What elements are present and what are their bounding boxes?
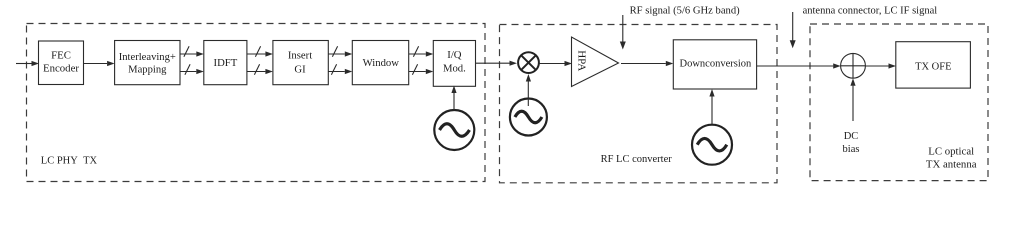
block Interleaving+Mapping [115, 41, 180, 85]
label LC PHY TX [41, 156, 98, 167]
dashed enclosure LC optical TX antenna [810, 24, 988, 181]
svg-text:bias: bias [843, 144, 860, 155]
mixer X [518, 52, 539, 73]
svg-text:LC optical: LC optical [928, 146, 974, 158]
block Insert GI [273, 41, 328, 85]
bus Window to IQ Mod lower [409, 64, 434, 74]
svg-text:Interleaving+: Interleaving+ [119, 52, 176, 63]
wire oscillator to I/Q Mod [451, 86, 456, 111]
label LC optical TX antenna [926, 146, 977, 171]
label RF LC converter [601, 154, 673, 165]
wire oscillator to mixer [526, 74, 531, 106]
adder (bias tee) [841, 53, 866, 78]
svg-text:I/Q: I/Q [447, 49, 462, 61]
svg-text:DC: DC [844, 131, 859, 142]
block TX OFE [896, 42, 971, 88]
arrow RF signal into wire [620, 15, 626, 50]
bus Window to IQ Mod upper [409, 46, 434, 56]
svg-text:RF LC converter: RF LC converter [601, 154, 673, 165]
oscillator below mixer [510, 99, 547, 136]
svg-text:Mod.: Mod. [443, 62, 466, 74]
wire I/Q Mod to mixer [476, 61, 518, 66]
arrow antenna connector into wire [790, 12, 796, 48]
oscillator below Downconversion [692, 125, 732, 165]
svg-text:TX OFE: TX OFE [915, 62, 951, 73]
svg-text:Insert: Insert [288, 49, 312, 61]
bus Interleaving to IDFT lower [180, 64, 204, 74]
bus IDFT to Insert GI lower [247, 64, 273, 74]
wire Downconversion to adder [757, 63, 841, 68]
svg-text:GI: GI [294, 63, 306, 75]
bus Insert GI to Window lower [328, 64, 352, 74]
wire HPA to Downconversion [621, 61, 673, 66]
svg-text:antenna connector, LC IF signa: antenna connector, LC IF signal [803, 6, 938, 17]
svg-text:TX antenna: TX antenna [926, 159, 977, 171]
svg-text:Window: Window [363, 57, 400, 69]
svg-text:IDFT: IDFT [214, 57, 238, 69]
label antenna connector, LC IF signal [803, 6, 938, 17]
amplifier HPA [572, 37, 619, 87]
oscillator below I/Q Mod [434, 110, 474, 150]
svg-text:HPA: HPA [576, 50, 588, 71]
bus Interleaving to IDFT upper [180, 46, 203, 56]
dashed enclosure RF LC converter [500, 25, 778, 183]
svg-text:FEC: FEC [51, 50, 71, 62]
wire input arrow [16, 61, 39, 66]
bus Insert GI to Window upper [328, 46, 352, 56]
label RF signal (5/6 GHz band) [630, 6, 741, 17]
svg-text:LC PHY TX: LC PHY TX [41, 156, 98, 167]
svg-text:Downconversion: Downconversion [680, 59, 752, 70]
svg-text:RF signal (5/6 GHz band): RF signal (5/6 GHz band) [630, 6, 741, 17]
wire FEC to Interleaving [84, 61, 115, 66]
block FEC Encoder [39, 41, 84, 85]
svg-text:Encoder: Encoder [43, 63, 79, 75]
wire mixer to HPA [539, 61, 572, 66]
dashed enclosure LC PHY TX [27, 24, 486, 182]
bus IDFT to Insert GI upper [247, 46, 273, 56]
wire DC bias to adder [850, 78, 855, 121]
wire oscillator to Downconversion [709, 89, 714, 125]
block Downconversion [673, 40, 756, 89]
label DC bias [843, 131, 860, 155]
block Window [352, 41, 408, 85]
block IDFT [204, 41, 247, 85]
block I/Q Mod. [433, 41, 475, 87]
svg-text:Mapping: Mapping [128, 64, 167, 75]
wire adder to TX OFE [865, 63, 896, 68]
